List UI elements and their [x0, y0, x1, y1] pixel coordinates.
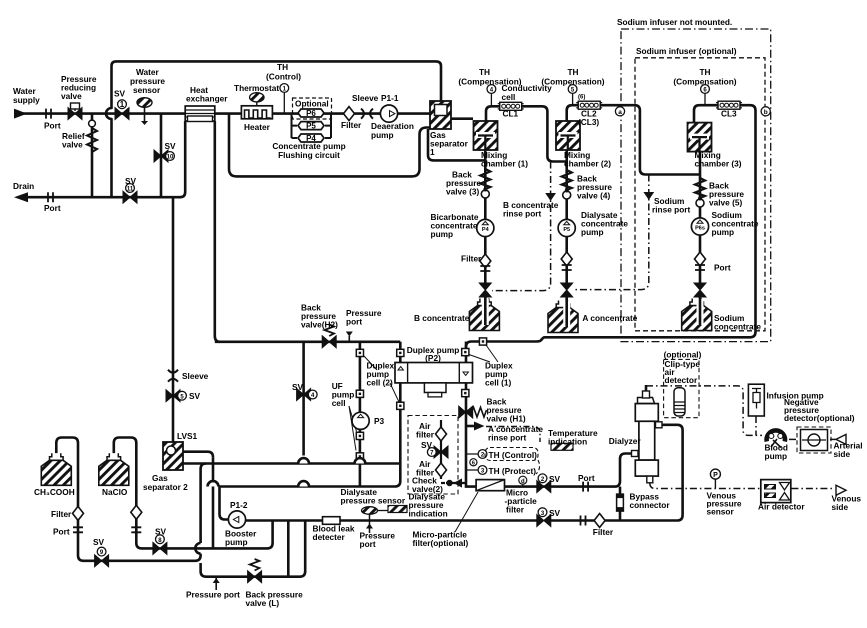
- svg-text:exchanger: exchanger: [186, 94, 228, 104]
- svg-text:TH: TH: [699, 67, 710, 77]
- svg-text:SV: SV: [549, 508, 561, 518]
- svg-text:indication: indication: [548, 437, 587, 447]
- svg-text:Thermostat: Thermostat: [234, 83, 279, 93]
- svg-text:Dialyzer: Dialyzer: [609, 436, 642, 446]
- svg-text:Sodium infuser not mounted.: Sodium infuser not mounted.: [617, 17, 732, 27]
- svg-text:cell (1): cell (1): [485, 378, 512, 388]
- svg-text:pressure sensor: pressure sensor: [341, 496, 406, 506]
- svg-text:side: side: [832, 502, 849, 512]
- svg-text:port: port: [346, 317, 362, 327]
- svg-text:pump: pump: [765, 451, 788, 461]
- svg-text:Port: Port: [714, 263, 731, 273]
- svg-text:Sleeve: Sleeve: [352, 93, 379, 103]
- svg-text:1: 1: [120, 100, 125, 109]
- svg-text:chamber (3): chamber (3): [695, 159, 742, 169]
- svg-text:Filter: Filter: [461, 254, 482, 264]
- svg-text:(6): (6): [578, 95, 585, 101]
- svg-text:cell: cell: [502, 92, 516, 102]
- svg-text:Filter: Filter: [593, 527, 614, 537]
- svg-text:TH: TH: [479, 67, 490, 77]
- svg-text:filter(optional): filter(optional): [413, 538, 469, 548]
- svg-text:Filter: Filter: [51, 509, 72, 519]
- svg-text:TH (Protect): TH (Protect): [489, 466, 537, 476]
- svg-text:SV: SV: [549, 474, 561, 484]
- svg-text:d: d: [521, 479, 525, 485]
- svg-text:P1-1: P1-1: [381, 93, 399, 103]
- svg-text:CL3: CL3: [721, 109, 737, 119]
- svg-text:TH (Control): TH (Control): [489, 450, 538, 460]
- svg-text:connector: connector: [630, 500, 671, 510]
- svg-text:Heater: Heater: [244, 122, 271, 132]
- svg-text:CH₃COOH: CH₃COOH: [34, 487, 75, 497]
- svg-text:Pressure port: Pressure port: [186, 590, 240, 600]
- svg-text:(CL3): (CL3): [578, 117, 599, 127]
- svg-text:CL1: CL1: [503, 109, 519, 119]
- svg-text:SV: SV: [155, 527, 167, 537]
- svg-text:Sleeve: Sleeve: [182, 371, 209, 381]
- svg-text:SV: SV: [292, 382, 304, 392]
- svg-text:separator: separator: [430, 139, 469, 149]
- svg-text:sensor: sensor: [133, 85, 161, 95]
- svg-text:Sodium infuser (optional): Sodium infuser (optional): [636, 46, 737, 56]
- svg-text:chamber (1): chamber (1): [481, 159, 528, 169]
- svg-text:(Compensation): (Compensation): [673, 77, 736, 87]
- svg-text:P6: P6: [306, 109, 316, 118]
- svg-text:(optional): (optional): [664, 350, 702, 360]
- svg-text:SV: SV: [165, 141, 177, 151]
- svg-text:P3: P3: [374, 416, 385, 426]
- svg-text:valve: valve: [62, 140, 83, 150]
- svg-text:pump: pump: [581, 227, 604, 237]
- svg-text:rinse port: rinse port: [503, 209, 542, 219]
- svg-text:B concentrate: B concentrate: [414, 313, 470, 323]
- svg-text:LVS1: LVS1: [177, 431, 198, 441]
- svg-text:sensor: sensor: [707, 507, 735, 517]
- svg-text:NaClO: NaClO: [102, 487, 128, 497]
- svg-text:Filter: Filter: [341, 120, 362, 130]
- svg-text:Port: Port: [53, 527, 70, 537]
- svg-text:detector(optional): detector(optional): [784, 413, 855, 423]
- svg-text:valve: valve: [61, 91, 82, 101]
- svg-text:pump: pump: [225, 537, 248, 547]
- svg-text:SV: SV: [125, 176, 137, 186]
- svg-text:cell: cell: [332, 398, 346, 408]
- svg-text:supply: supply: [13, 95, 40, 105]
- svg-text:filter: filter: [506, 505, 525, 515]
- svg-text:P5: P5: [563, 227, 570, 233]
- svg-text:indication: indication: [409, 509, 448, 519]
- svg-text:SV: SV: [114, 89, 126, 99]
- svg-text:(Control): (Control): [266, 72, 301, 82]
- svg-text:Port: Port: [578, 473, 595, 483]
- svg-text:SV: SV: [421, 440, 433, 450]
- svg-text:Port: Port: [44, 121, 61, 131]
- svg-text:Optional: Optional: [295, 99, 329, 109]
- svg-text:cell (2): cell (2): [367, 378, 394, 388]
- svg-text:P: P: [713, 472, 718, 479]
- svg-text:TH: TH: [277, 62, 288, 72]
- svg-text:detector: detector: [665, 375, 699, 385]
- svg-text:P4: P4: [482, 227, 490, 233]
- svg-text:TH: TH: [567, 67, 578, 77]
- svg-text:valve (L): valve (L): [246, 598, 280, 608]
- svg-text:detecter: detecter: [313, 532, 346, 542]
- svg-text:1: 1: [430, 147, 435, 157]
- svg-text:rinse port: rinse port: [488, 433, 527, 443]
- svg-text:SV: SV: [93, 537, 105, 547]
- svg-text:separator 2: separator 2: [143, 482, 188, 492]
- svg-text:a: a: [618, 109, 622, 116]
- svg-text:valve (5): valve (5): [709, 198, 742, 208]
- svg-text:b: b: [764, 109, 768, 116]
- svg-text:(P2): (P2): [425, 353, 441, 363]
- svg-text:rinse port: rinse port: [652, 205, 691, 215]
- svg-text:pump: pump: [431, 229, 454, 239]
- svg-text:11: 11: [127, 187, 134, 193]
- svg-text:SV: SV: [189, 391, 201, 401]
- svg-text:6: 6: [472, 461, 475, 467]
- svg-text:valve(H2): valve(H2): [301, 320, 338, 330]
- svg-text:Air detector: Air detector: [758, 502, 805, 512]
- svg-text:Flushing circuit: Flushing circuit: [278, 150, 340, 160]
- svg-text:P6s: P6s: [695, 226, 705, 232]
- svg-text:valve (H1): valve (H1): [487, 414, 526, 424]
- svg-text:P1-2: P1-2: [230, 500, 248, 510]
- svg-text:side: side: [834, 449, 851, 459]
- svg-text:port: port: [360, 539, 376, 549]
- svg-text:pump: pump: [371, 130, 394, 140]
- svg-text:Drain: Drain: [13, 181, 34, 191]
- svg-text:P5: P5: [306, 122, 316, 131]
- svg-text:pump: pump: [712, 227, 735, 237]
- svg-text:filter: filter: [416, 430, 435, 440]
- svg-text:valve (3): valve (3): [446, 187, 479, 197]
- svg-text:10: 10: [167, 155, 174, 161]
- svg-text:A concentrate: A concentrate: [582, 313, 637, 323]
- svg-text:valve (4): valve (4): [577, 191, 610, 201]
- svg-text:concentrate: concentrate: [714, 322, 761, 332]
- svg-text:chamber (2): chamber (2): [564, 159, 611, 169]
- svg-text:Port: Port: [44, 203, 61, 213]
